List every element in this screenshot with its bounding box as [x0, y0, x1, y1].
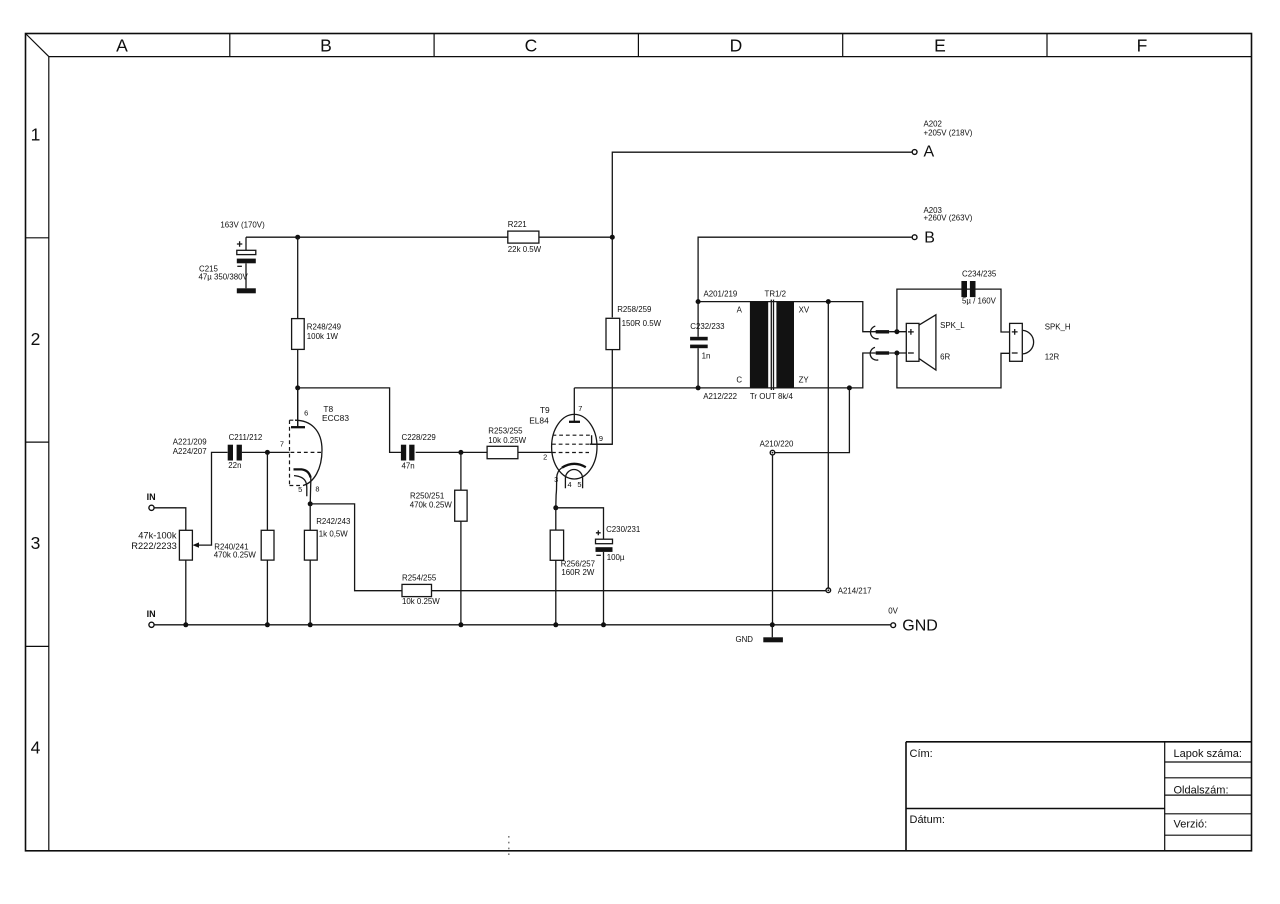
- svg-text:C230/231: C230/231: [606, 525, 640, 534]
- svg-text:GND: GND: [902, 617, 938, 634]
- resistor R250/251: [460, 452, 462, 490]
- node: SPK_L - junction: [894, 351, 899, 356]
- svg-text:R254/255: R254/255: [402, 573, 437, 582]
- svg-text:C: C: [736, 376, 742, 385]
- T8 grid pin 7 dashed: [291, 451, 322, 453]
- node: ground rail junction: [770, 622, 775, 627]
- capacitor C234/235: [961, 281, 967, 297]
- node: junction C228 / R250 / R253: [458, 450, 463, 455]
- svg-text:C234/235: C234/235: [962, 269, 997, 278]
- TR1/2 secondary winding bar: [776, 302, 794, 388]
- wire: T9 anode to transformer primary C: [574, 353, 875, 388]
- svg-text:47n: 47n: [402, 461, 415, 470]
- wire: tweeter loop bottom: [897, 353, 1010, 388]
- wire: R258/259 to EL84 screen grid pin 9: [592, 350, 613, 445]
- resistor R254/255: [402, 584, 432, 596]
- wire: transformer top line A201/219 to XV out: [698, 302, 876, 332]
- svg-text:2: 2: [543, 452, 547, 461]
- capacitor C228/229: [401, 445, 406, 461]
- svg-text:150R 0.5W: 150R 0.5W: [622, 319, 662, 328]
- triode T8 ECC83: [280, 388, 350, 504]
- T8 anode pin 6: [297, 388, 299, 426]
- svg-text:2: 2: [31, 329, 41, 349]
- svg-text:A: A: [924, 144, 935, 161]
- svg-text:EL84: EL84: [529, 415, 549, 425]
- wire: IN to potentiometer top: [154, 508, 186, 531]
- svg-text:B: B: [924, 230, 935, 247]
- node: R250 bottom on rail: [458, 622, 463, 627]
- speaker SPK_L: [906, 315, 965, 370]
- svg-text:R258/259: R258/259: [617, 305, 652, 314]
- terminal A202 (A): [912, 150, 917, 155]
- wire: ZY branch to terminal A210/220: [775, 388, 849, 453]
- svg-text:22n: 22n: [228, 461, 241, 470]
- svg-text:IN: IN: [147, 492, 156, 502]
- pentode T9 EL84: [529, 388, 612, 508]
- wire: cathode feedback to R254/255: [310, 504, 402, 591]
- svg-text:+260V (263V): +260V (263V): [924, 213, 973, 222]
- svg-text:C228/229: C228/229: [402, 433, 437, 442]
- wire: R253 to EL84 grid pin 2: [518, 451, 552, 453]
- svg-text:1k 0,5W: 1k 0,5W: [319, 530, 348, 539]
- node: grid junction with R240/241: [265, 450, 270, 455]
- svg-text:A212/222: A212/222: [703, 392, 737, 401]
- wire: B supply line to transformer primary: [698, 237, 912, 301]
- resistor R221: [508, 231, 539, 243]
- svg-text:7: 7: [578, 404, 582, 413]
- T9 grid dashed lines: [552, 435, 592, 452]
- potentiometer R222/2233 47k-100k: [179, 530, 192, 560]
- terminal 0V GND: [891, 623, 896, 628]
- svg-text:100k 1W: 100k 1W: [307, 332, 339, 341]
- svg-text:470k 0.25W: 470k 0.25W: [410, 500, 453, 509]
- T9 heater pins 4,5: [565, 470, 582, 489]
- svg-text:Dátum:: Dátum:: [910, 814, 945, 826]
- svg-text:5: 5: [298, 485, 302, 494]
- ground bar below C215: [237, 288, 256, 293]
- capacitor C215 electrolytic: [245, 237, 247, 250]
- svg-text:A: A: [737, 305, 743, 314]
- svg-text:GND: GND: [735, 635, 753, 644]
- node: junction ZY / A210 branch: [847, 385, 852, 390]
- svg-text:Verzió:: Verzió:: [1174, 819, 1208, 831]
- svg-text:A221/209: A221/209: [173, 438, 207, 447]
- RCA plug bottom (to SPK_L -): [870, 347, 906, 360]
- svg-text:163V (170V): 163V (170V): [220, 221, 265, 230]
- svg-text:A: A: [116, 36, 128, 56]
- node: ECC83 anode junction: [295, 385, 300, 390]
- potentiometer wiper arrow: [198, 452, 228, 545]
- terminal A214/217: [826, 588, 831, 593]
- svg-text:10k 0.25W: 10k 0.25W: [402, 597, 440, 606]
- svg-text:+205V (218V): +205V (218V): [924, 128, 973, 137]
- wire: feedback line to terminal A214/217: [461, 590, 826, 592]
- terminal IN (upper): [149, 505, 154, 510]
- wire: C211 to ECC83 grid: [242, 451, 290, 453]
- svg-text:5: 5: [577, 480, 581, 489]
- svg-text:7: 7: [280, 440, 284, 449]
- svg-text:C232/233: C232/233: [690, 322, 725, 331]
- T8 cathode stub pin 5: [294, 476, 307, 497]
- wire: A supply line from terminal A down to R258/259: [612, 152, 911, 317]
- svg-text:470k 0.25W: 470k 0.25W: [214, 551, 257, 560]
- svg-text:T9: T9: [540, 405, 550, 415]
- capacitor C211/212: [228, 445, 233, 461]
- svg-text:R222/2233: R222/2233: [131, 541, 177, 551]
- speaker SPK_H: [1010, 323, 1071, 362]
- svg-text:9: 9: [599, 434, 603, 443]
- node: R256 bottom on rail: [553, 622, 558, 627]
- transformer TR1/2: [703, 289, 810, 401]
- resistor R256/257: [550, 530, 563, 560]
- svg-text:XV: XV: [799, 305, 810, 314]
- svg-text:TR1/2: TR1/2: [765, 289, 787, 298]
- svg-text:A210/220: A210/220: [760, 440, 794, 449]
- TR1/2 primary winding bar: [750, 302, 768, 388]
- svg-text:6: 6: [304, 409, 308, 418]
- wire: A210/220 down to ground rail: [772, 455, 774, 625]
- TITLE BLOCK: [906, 742, 1252, 851]
- wire: C228 to R253: [416, 451, 487, 453]
- svg-text:D: D: [730, 36, 743, 56]
- svg-text:IN: IN: [147, 609, 156, 619]
- T9 cathode: [562, 464, 586, 468]
- ground symbol GND: [771, 625, 773, 638]
- svg-text:A224/207: A224/207: [173, 447, 207, 456]
- svg-text:22k 0.5W: 22k 0.5W: [508, 245, 542, 254]
- node: junction 163V rail / C215 / R248: [295, 235, 300, 240]
- svg-text:E: E: [934, 36, 946, 56]
- svg-text:1n: 1n: [702, 352, 711, 361]
- T8 envelope arc: [295, 420, 322, 485]
- svg-text:R221: R221: [508, 220, 527, 229]
- node: C230 bottom on rail: [601, 622, 606, 627]
- svg-text:0V: 0V: [888, 607, 898, 616]
- node: SPK_L + junction: [894, 329, 899, 334]
- svg-text:8: 8: [315, 485, 319, 494]
- wire: anode to coupling cap C228: [298, 388, 402, 453]
- svg-text:R248/249: R248/249: [307, 322, 342, 331]
- wire: 163V rail right segment to A-line: [539, 236, 612, 238]
- wire: bottom signal-ground rail: [154, 624, 891, 626]
- svg-text:Cím:: Cím:: [910, 748, 933, 760]
- svg-text:A214/217: A214/217: [838, 586, 872, 595]
- svg-text:12R: 12R: [1045, 352, 1060, 361]
- svg-text:A201/219: A201/219: [704, 289, 738, 298]
- wire: tweeter loop top with C234: [897, 289, 1010, 332]
- svg-text:5µ / 160V: 5µ / 160V: [962, 297, 997, 306]
- svg-text:160R 2W: 160R 2W: [561, 568, 594, 577]
- wire: 163V rail left segment: [246, 236, 508, 238]
- svg-text:ECC83: ECC83: [322, 413, 349, 423]
- svg-text:C211/212: C211/212: [229, 433, 263, 442]
- resistor R242/243: [304, 530, 317, 560]
- T8 cathode pin 8: [294, 469, 311, 477]
- fold mark: [508, 836, 510, 859]
- RCA plug top (to SPK_L +): [870, 326, 906, 339]
- node: junction B-line / transformer A / C232: [696, 299, 701, 304]
- T9 envelope: [552, 414, 597, 479]
- terminal A210/220: [770, 450, 775, 455]
- svg-text:6R: 6R: [940, 352, 950, 361]
- svg-text:4: 4: [31, 738, 41, 758]
- svg-text:3: 3: [31, 533, 41, 553]
- resistor R258/259: [606, 318, 620, 349]
- resistor R253/255: [487, 446, 518, 458]
- node: R240 bottom on rail: [265, 622, 270, 627]
- svg-text:100µ: 100µ: [607, 553, 625, 562]
- svg-text:A202: A202: [924, 120, 942, 129]
- T9 screen pin 9 exit: [590, 435, 613, 444]
- T8 envelope dashed edge: [290, 420, 303, 485]
- T9 anode pin 7: [573, 388, 575, 421]
- capacitor C230/231 electrolytic: [556, 508, 604, 539]
- node: R242 bottom on rail: [308, 622, 313, 627]
- svg-text:B: B: [320, 36, 332, 56]
- resistor R248/249: [297, 237, 299, 318]
- svg-text:SPK_L: SPK_L: [940, 321, 965, 330]
- capacitor C232/233: [697, 302, 699, 337]
- svg-text:SPK_H: SPK_H: [1045, 323, 1071, 332]
- svg-text:Tr OUT 8k/4: Tr OUT 8k/4: [750, 392, 794, 401]
- svg-text:R242/243: R242/243: [316, 517, 351, 526]
- node: T9 cathode junction: [553, 505, 558, 510]
- resistor R240/241: [266, 452, 268, 530]
- svg-text:47µ 350/380V: 47µ 350/380V: [199, 272, 249, 281]
- terminal IN (lower): [149, 622, 154, 627]
- svg-text:ZY: ZY: [799, 376, 810, 385]
- svg-text:Lapok száma:: Lapok száma:: [1174, 748, 1242, 760]
- node: junction C232 bottom: [696, 385, 701, 390]
- svg-text:3: 3: [554, 475, 558, 484]
- svg-text:10k 0.25W: 10k 0.25W: [488, 436, 526, 445]
- svg-text:47k-100k: 47k-100k: [138, 531, 177, 541]
- svg-text:R250/251: R250/251: [410, 492, 444, 501]
- node: junction XV / A214 branch: [826, 299, 831, 304]
- svg-text:1: 1: [31, 125, 41, 145]
- TR1/2 core lines: [771, 300, 773, 390]
- node: T8 cathode junction: [308, 501, 313, 506]
- svg-text:F: F: [1137, 36, 1148, 56]
- svg-text:4: 4: [568, 480, 572, 489]
- svg-text:Oldalszám:: Oldalszám:: [1174, 785, 1229, 797]
- node: junction A-line / R221: [610, 235, 615, 240]
- svg-text:C: C: [525, 36, 538, 56]
- node: pot bottom on rail: [183, 622, 188, 627]
- svg-text:R253/255: R253/255: [488, 427, 523, 436]
- terminal A203 (B): [912, 235, 917, 240]
- wire: XV branch down to terminal A214/217: [827, 302, 829, 588]
